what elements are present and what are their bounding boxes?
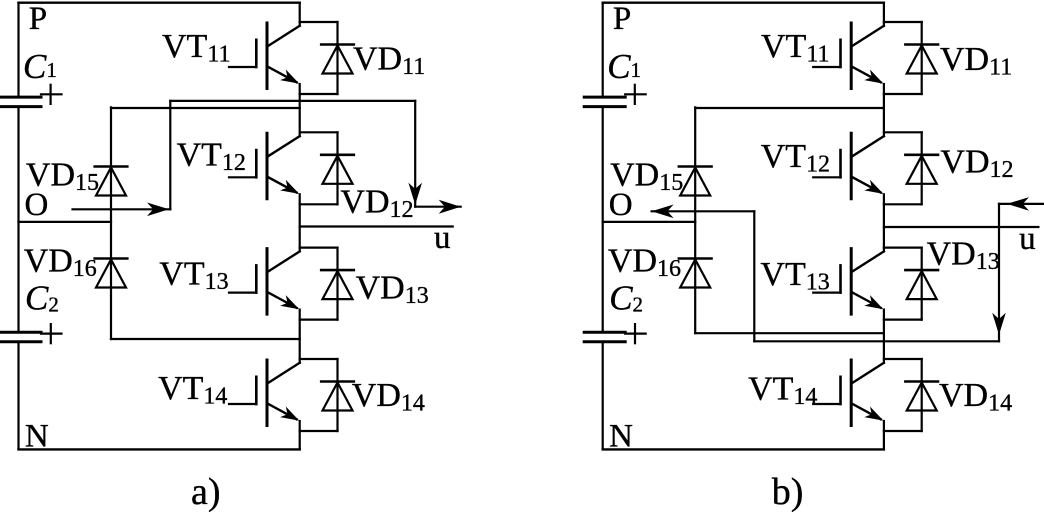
label caption a)	[191, 471, 221, 512]
svg-text:u: u	[434, 220, 451, 256]
label diode VD12 designator (a)	[340, 184, 413, 224]
wire P rail (a)	[19, 2, 300, 4]
wire phase-leg chain: VT13/VT14 junction (b)	[883, 310, 885, 363]
diode VD14 (b) with connection wires	[884, 359, 938, 431]
wire DC bus middle segment (b)	[602, 107, 604, 333]
wire phase-leg chain: VT14 emitter to N (a)	[299, 421, 301, 449]
label transistor VT11 designator (b)	[761, 28, 829, 68]
svg-text:VT13: VT13	[760, 256, 829, 296]
wire phase-leg chain: VT11/VT12 junction (b)	[883, 84, 885, 136]
wire DC bus upper segment (b)	[602, 3, 604, 97]
svg-text:VT11: VT11	[162, 28, 230, 68]
label diode VD13 designator (a)	[356, 270, 429, 310]
transistor VT14 (b) (IGBT)	[813, 360, 884, 426]
label node O (a)	[25, 187, 49, 223]
wire O rail (b)	[603, 221, 696, 223]
label transistor VT14 designator (b)	[748, 371, 817, 411]
label capacitor C2 designator (a)	[25, 279, 59, 318]
svg-text:VT12: VT12	[177, 137, 246, 177]
transistor VT14 (a) (IGBT)	[229, 360, 300, 426]
label capacitor C1 designator (b)	[607, 47, 641, 86]
label transistor VT13 designator (a)	[159, 255, 228, 295]
wire clamp top (VD15 cathode to VT11/VT12 node) (a)	[111, 107, 300, 109]
label node N (b)	[609, 419, 633, 455]
diode VD15 (a) (clamp)	[95, 167, 128, 196]
capacitor C2 (b)	[584, 324, 646, 343]
wire phase-leg chain: P to VT11 collector (a)	[299, 3, 301, 26]
label node O (b)	[609, 187, 633, 223]
label diode VD11 designator (b)	[940, 41, 1012, 81]
svg-text:C1: C1	[23, 47, 57, 86]
transistor VT11 (b) (IGBT)	[813, 23, 884, 89]
svg-text:VT13: VT13	[159, 255, 228, 295]
diode VD12 (a) with connection wires	[300, 132, 354, 204]
diode VD16 (a) (clamp)	[95, 259, 128, 288]
wire clamp bottom (VD16 anode to VT13/VT14 node) (a)	[111, 338, 300, 340]
svg-text:VD11: VD11	[940, 41, 1012, 81]
svg-text:N: N	[25, 419, 49, 455]
wire clamp top (VD15 cathode to VT11/VT12 node) (b)	[695, 107, 884, 109]
wire P rail (b)	[603, 2, 884, 4]
diode VD11 (b) with connection wires	[884, 22, 938, 94]
svg-text:VD14: VD14	[352, 377, 425, 417]
wire DC bus upper segment (a)	[17, 3, 19, 97]
diode VD13 (b) with connection wires	[884, 248, 938, 320]
label diode VD14 designator (a)	[352, 377, 425, 417]
label diode VD12 designator (b)	[940, 144, 1013, 184]
wire O rail (a)	[19, 221, 112, 223]
label diode VD11 designator (a)	[353, 41, 425, 81]
label diode VD16 designator (a)	[24, 243, 97, 283]
diode VD11 (a) with connection wires	[300, 22, 354, 94]
label node P (b)	[613, 1, 631, 37]
svg-text:b): b)	[772, 471, 804, 512]
wire N rail (a)	[19, 448, 300, 450]
svg-text:VT14: VT14	[748, 371, 817, 411]
wire output rail u (b)	[884, 226, 1039, 228]
wire phase-leg chain: P to VT11 collector (b)	[883, 3, 885, 26]
svg-text:C1: C1	[607, 47, 641, 86]
svg-text:VT14: VT14	[158, 370, 227, 410]
transistor VT12 (a) (IGBT)	[229, 133, 300, 199]
svg-text:VD12: VD12	[340, 184, 413, 224]
svg-text:VT11: VT11	[761, 28, 829, 68]
wire phase-leg chain: VT13/VT14 junction (a)	[299, 310, 301, 363]
transistor VT13 (b) (IGBT)	[813, 249, 884, 315]
label capacitor C1 designator (a)	[23, 47, 57, 86]
svg-text:O: O	[25, 187, 49, 223]
current path with arrows: O through VD15/VT12 to output (a)	[73, 101, 461, 216]
wire DC bus lower segment (b)	[602, 342, 604, 449]
diode VD15 (b) (clamp)	[679, 167, 712, 196]
diode VD16 (b) (clamp)	[679, 259, 712, 288]
wire phase-leg chain: VT12/VT13 junction (output node) (a)	[299, 194, 301, 251]
diode VD14 (a) with connection wires	[300, 359, 354, 431]
svg-text:VD11: VD11	[353, 41, 425, 81]
wire clamp diode chain (a)	[110, 107, 112, 339]
label diode VD15 designator (a)	[26, 157, 99, 197]
svg-text:VD12: VD12	[940, 144, 1013, 184]
wire DC bus middle segment (a)	[17, 107, 19, 333]
transistor VT11 (a) (IGBT)	[229, 23, 300, 89]
wire output rail u (a)	[300, 225, 453, 227]
label transistor VT14 designator (a)	[158, 370, 227, 410]
wire phase-leg chain: VT12/VT13 junction (output node) (b)	[883, 194, 885, 251]
capacitor C2 (a)	[0, 324, 62, 343]
wire phase-leg chain: VT14 emitter to N (b)	[883, 421, 885, 449]
capacitor C1 (b)	[584, 85, 646, 107]
svg-text:C2: C2	[609, 279, 643, 318]
label capacitor C2 designator (b)	[609, 279, 643, 318]
label output voltage u (b)	[1019, 221, 1036, 257]
svg-text:u: u	[1019, 221, 1036, 257]
svg-text:a): a)	[191, 471, 221, 512]
wire phase-leg chain: VT11/VT12 junction (a)	[299, 84, 301, 136]
svg-text:VD13: VD13	[927, 236, 1000, 276]
wire DC bus lower segment (a)	[17, 342, 19, 449]
label output voltage u (a)	[434, 220, 451, 256]
label node P (a)	[29, 1, 47, 37]
svg-text:VD16: VD16	[608, 243, 681, 283]
wire clamp bottom (VD16 anode to VT13/VT14 node) (b)	[695, 332, 884, 334]
label diode VD14 designator (b)	[939, 377, 1012, 417]
transistor VT13 (a) (IGBT)	[229, 249, 300, 315]
svg-text:O: O	[609, 187, 633, 223]
svg-text:VD16: VD16	[24, 243, 97, 283]
label node N (a)	[25, 419, 49, 455]
label diode VD16 designator (b)	[608, 243, 681, 283]
label transistor VT13 designator (b)	[760, 256, 829, 296]
label diode VD13 designator (b)	[927, 236, 1000, 276]
current path with arrows: load through VT13/VD16 to O (b)	[652, 197, 1044, 341]
diode VD13 (a) with connection wires	[300, 248, 354, 320]
capacitor C1 (a)	[0, 85, 62, 107]
label caption b)	[772, 471, 804, 512]
label transistor VT12 designator (a)	[177, 137, 246, 177]
svg-text:N: N	[609, 419, 633, 455]
label transistor VT12 designator (b)	[761, 138, 830, 178]
svg-text:VD13: VD13	[356, 270, 429, 310]
wire clamp diode chain (b)	[694, 107, 696, 333]
svg-text:VD14: VD14	[939, 377, 1012, 417]
svg-text:P: P	[613, 1, 631, 37]
diode VD12 (b) with connection wires	[884, 132, 938, 204]
label transistor VT11 designator (a)	[162, 28, 230, 68]
label diode VD15 designator (b)	[610, 157, 683, 197]
wire N rail (b)	[603, 448, 884, 450]
transistor VT12 (b) (IGBT)	[813, 133, 884, 199]
svg-text:P: P	[29, 1, 47, 37]
svg-text:C2: C2	[25, 279, 59, 318]
svg-text:VT12: VT12	[761, 138, 830, 178]
